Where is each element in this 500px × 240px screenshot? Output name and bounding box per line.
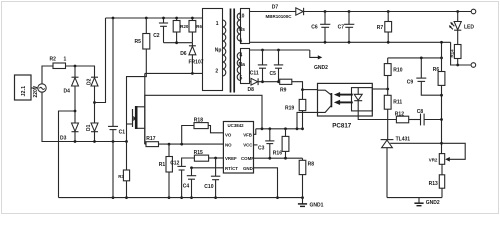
- node: [440, 142, 443, 145]
- wire: [74, 132, 76, 142]
- capacitor C9: [407, 58, 442, 95]
- node: [190, 196, 193, 199]
- svg-text:D7: D7: [272, 5, 279, 11]
- wire: [42, 92, 127, 141]
- capacitor C6: [311, 10, 330, 42]
- wire drain to primary pin2: [145, 72, 221, 74]
- resistor R19: [285, 99, 306, 128]
- svg-text:Ns: Ns: [239, 27, 246, 33]
- svg-text:C7: C7: [338, 25, 345, 31]
- svg-text:PC817: PC817: [332, 122, 351, 129]
- capacitor C4: [183, 168, 196, 198]
- capacitor C5: [270, 49, 284, 82]
- wire secondary 0V rail: [250, 41, 451, 43]
- svg-text:R15: R15: [194, 150, 203, 156]
- svg-text:VR2: VR2: [429, 157, 438, 162]
- diode D4: [64, 77, 79, 94]
- transformer aux winding Na pins 4-5: [237, 49, 249, 84]
- wire: [95, 18, 106, 103]
- node: [268, 157, 271, 160]
- svg-text:C9: C9: [407, 80, 414, 86]
- svg-text:2: 2: [215, 69, 218, 75]
- svg-text:GND: GND: [243, 166, 253, 171]
- svg-text:1: 1: [216, 21, 219, 27]
- svg-text:R5: R5: [135, 39, 142, 45]
- svg-text:GND2: GND2: [426, 200, 440, 206]
- svg-text:VFB: VFB: [243, 132, 252, 137]
- svg-text:R9: R9: [280, 87, 287, 93]
- resistor R15: [182, 150, 224, 166]
- resistor R1: [159, 144, 173, 198]
- svg-text:VCC: VCC: [243, 143, 253, 148]
- node: [162, 17, 165, 20]
- svg-text:C11: C11: [250, 71, 259, 77]
- node: [175, 17, 178, 20]
- node: [125, 140, 128, 143]
- resistor R9: [280, 79, 292, 93]
- svg-text:R1: R1: [159, 162, 166, 168]
- wire gate feed: [127, 49, 147, 142]
- svg-text:UC3842: UC3842: [228, 123, 245, 128]
- wire current sense loop: [145, 95, 262, 144]
- node: [93, 140, 96, 143]
- svg-text:R18: R18: [194, 118, 203, 124]
- wire: [94, 132, 96, 142]
- node: [284, 127, 287, 130]
- resistor R10: [384, 58, 402, 95]
- wire primary ground rail: [59, 197, 303, 199]
- wire VCC stub: [254, 144, 258, 146]
- node: [112, 17, 115, 20]
- node: [74, 140, 77, 143]
- node: [168, 143, 171, 146]
- node: [261, 80, 264, 83]
- MOSFET Q1: [132, 106, 145, 129]
- wire TL431 ref: [390, 142, 441, 144]
- resistor R8: [299, 158, 314, 197]
- wire emitter drop: [297, 112, 318, 128]
- node: [168, 196, 171, 199]
- svg-text:220V: 220V: [33, 85, 39, 97]
- svg-text:R14: R14: [449, 49, 454, 58]
- svg-text:Np: Np: [215, 48, 222, 54]
- resistor R17: [146, 136, 159, 147]
- node: [180, 196, 183, 199]
- wire VR2 wiper loop: [442, 143, 465, 159]
- svg-text:R10: R10: [393, 68, 402, 74]
- svg-text:NO: NO: [225, 143, 232, 148]
- node: [261, 127, 264, 130]
- wire: [74, 86, 76, 123]
- wire to optocoupler: [303, 89, 319, 91]
- capacitor C10: [204, 158, 220, 198]
- wire: [292, 82, 303, 100]
- capacitor C12: [170, 161, 186, 198]
- node: [214, 157, 217, 160]
- wire LED anode to divider: [372, 88, 387, 90]
- svg-text:C1: C1: [119, 130, 126, 136]
- capacitor C7: [338, 10, 355, 42]
- node: [268, 127, 271, 130]
- wire GND pin: [254, 168, 278, 198]
- svg-text:R16: R16: [273, 151, 282, 157]
- wire: [31, 87, 38, 89]
- wire divider top: [388, 57, 442, 59]
- node: [145, 17, 148, 20]
- node: [277, 80, 280, 83]
- wire secondary pin10: [250, 11, 296, 13]
- node: [440, 118, 443, 121]
- capacitor C2: [153, 18, 168, 43]
- svg-text:R11: R11: [393, 100, 402, 106]
- diode D3: [60, 123, 79, 142]
- svg-text:C8: C8: [417, 109, 424, 115]
- wire: [258, 81, 280, 83]
- wire feedback bus: [256, 128, 303, 130]
- diode D2: [87, 77, 99, 86]
- wire VFB jog: [254, 129, 256, 135]
- node: [190, 166, 193, 169]
- node: [112, 140, 115, 143]
- svg-text:10: 10: [239, 14, 245, 20]
- diode D7 MBR10100C: [266, 5, 304, 19]
- node: [296, 127, 299, 130]
- svg-text:LED: LED: [464, 25, 474, 31]
- svg-text:GND2: GND2: [314, 65, 328, 71]
- svg-text:VREF: VREF: [225, 156, 237, 161]
- output terminal minus: [471, 63, 476, 68]
- wire to minus terminal: [451, 42, 471, 65]
- net arrow GND2: [310, 50, 328, 71]
- svg-text:C6: C6: [311, 25, 318, 31]
- svg-text:C3: C3: [258, 145, 265, 151]
- node: [93, 101, 96, 104]
- svg-text:RT/CT: RT/CT: [225, 166, 238, 171]
- wire snubber bottom: [164, 42, 193, 44]
- transformer core: [231, 9, 235, 93]
- wire: [59, 111, 76, 198]
- node: [175, 41, 178, 44]
- resistor R11: [384, 95, 402, 139]
- optocoupler U2 PC817: [318, 83, 373, 129]
- capacitor C11: [250, 49, 267, 82]
- svg-text:C12: C12: [170, 161, 179, 167]
- node: [125, 196, 128, 199]
- svg-text:TL431: TL431: [396, 136, 411, 142]
- svg-text:C5: C5: [270, 71, 277, 77]
- svg-text:D3: D3: [60, 136, 67, 142]
- svg-text:R19: R19: [285, 106, 294, 112]
- node: [440, 94, 443, 97]
- node: [348, 41, 351, 44]
- svg-text:R6: R6: [196, 24, 202, 29]
- node: [456, 64, 459, 67]
- svg-text:C4: C4: [183, 184, 190, 190]
- wire: [42, 66, 53, 84]
- svg-text:R3: R3: [118, 174, 124, 179]
- node: [387, 41, 390, 44]
- output terminal plus: [471, 9, 476, 14]
- svg-text:1: 1: [64, 57, 67, 63]
- svg-text:R17: R17: [146, 136, 155, 142]
- potentiometer VR2: [429, 154, 445, 175]
- svg-text:VO: VO: [225, 132, 232, 137]
- wire: [74, 66, 76, 77]
- op-amp U1 UC3842: [223, 122, 254, 174]
- svg-text:R2: R2: [50, 57, 57, 63]
- svg-text:D2: D2: [87, 78, 93, 85]
- svg-text:GND1: GND1: [310, 202, 324, 208]
- svg-text:R12: R12: [395, 112, 404, 118]
- diode D1: [86, 123, 98, 132]
- resistor R14: [449, 30, 461, 65]
- svg-text:D1: D1: [86, 124, 92, 131]
- svg-text:D4: D4: [64, 89, 71, 95]
- resistor R20: [173, 18, 189, 43]
- transformer T1 primary winding Np: [203, 9, 226, 91]
- capacitor C8: [409, 109, 442, 126]
- connector J2.1: [15, 75, 32, 100]
- wire to IC pin: [145, 143, 146, 145]
- resistor R18: [182, 118, 224, 145]
- node: [74, 110, 77, 113]
- svg-text:D6: D6: [180, 51, 187, 57]
- svg-text:R20: R20: [180, 24, 189, 29]
- resistor R16: [273, 129, 289, 158]
- wire LED cathode: [358, 101, 396, 120]
- wire aux pin5: [250, 81, 252, 83]
- wire aux pin4: [250, 49, 310, 51]
- wire main top rail: [106, 17, 222, 19]
- resistor R6 snubber: [189, 18, 202, 43]
- wire COMP: [254, 157, 303, 159]
- svg-text:R8: R8: [308, 161, 315, 167]
- node: [301, 88, 304, 91]
- LED: [449, 10, 474, 31]
- resistor R13: [429, 175, 445, 198]
- resistor R12: [395, 112, 409, 123]
- node: [191, 72, 194, 75]
- wire Q1 source down: [144, 73, 146, 144]
- wire: [145, 18, 147, 34]
- svg-text:Na: Na: [239, 62, 246, 68]
- wire: [66, 66, 95, 77]
- svg-text:D8: D8: [248, 87, 255, 93]
- wire secondary ground rail: [387, 197, 442, 199]
- diode D6 FR107: [180, 43, 196, 74]
- resistor R3: [118, 142, 129, 198]
- wire RT/CT: [192, 167, 224, 169]
- node: [284, 157, 287, 160]
- svg-text:R7: R7: [377, 25, 384, 31]
- node: [74, 65, 77, 68]
- node: [180, 143, 183, 146]
- node: [276, 196, 279, 199]
- node: [112, 196, 115, 199]
- diode D8: [248, 78, 259, 93]
- transformer secondary winding Ns pins 10-6: [237, 9, 249, 45]
- svg-text:6: 6: [240, 39, 243, 45]
- node: [420, 57, 423, 60]
- svg-text:COMP: COMP: [241, 156, 254, 161]
- wire: [94, 86, 96, 123]
- resistor R5: [135, 34, 150, 50]
- svg-text:C10: C10: [204, 184, 213, 190]
- svg-text:5: 5: [240, 76, 243, 82]
- node: [440, 57, 443, 60]
- svg-text:J2.1: J2.1: [21, 86, 27, 97]
- resistor R7: [377, 10, 392, 42]
- capacitor C1: [108, 18, 125, 198]
- AC source 220V: [38, 84, 46, 92]
- node: [386, 88, 389, 91]
- wire R6 top tie to 0V rail: [441, 42, 443, 71]
- resistor R2: [53, 63, 66, 69]
- svg-text:R13: R13: [429, 181, 438, 187]
- node: [440, 41, 443, 44]
- ground GND2: [414, 198, 440, 206]
- svg-text:C2: C2: [153, 33, 160, 39]
- svg-text:4: 4: [240, 53, 243, 59]
- capacitor C3: [258, 129, 274, 158]
- svg-text:MBR10100C: MBR10100C: [266, 14, 293, 19]
- node: [301, 127, 304, 130]
- wire output plus rail: [304, 11, 472, 13]
- node: [191, 17, 194, 20]
- resistor R6 output: [433, 67, 445, 154]
- shunt regulator TL431: [381, 136, 411, 197]
- ground GND1: [298, 196, 324, 208]
- node: [324, 41, 327, 44]
- svg-text:FR107: FR107: [189, 60, 204, 66]
- svg-text:R6: R6: [433, 67, 440, 73]
- node: [214, 196, 217, 199]
